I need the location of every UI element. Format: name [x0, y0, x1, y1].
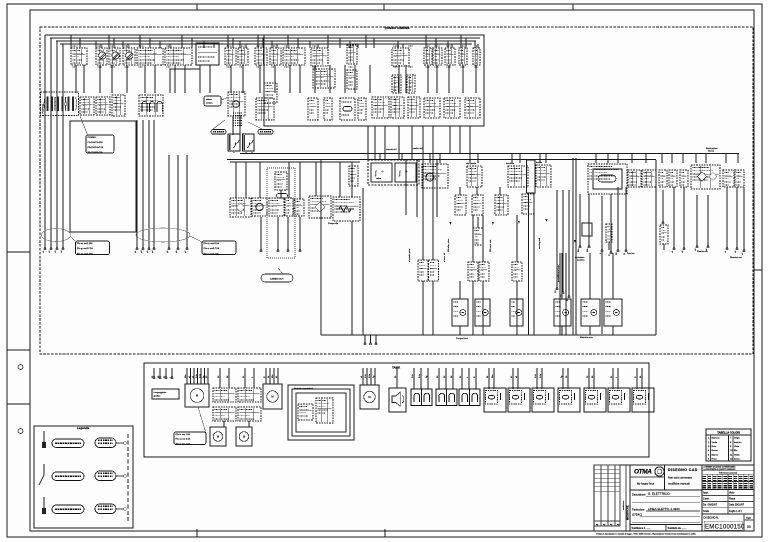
svg-text:Giallo: Giallo [734, 454, 740, 456]
svg-text:avviam.: avviam. [206, 102, 213, 104]
branch wire with terminal 2 [561, 190, 564, 297]
svg-text:chiave: chiave [206, 99, 213, 101]
bus drop wire 24 [276, 44, 278, 48]
legend pill left 1 [52, 439, 84, 447]
harness wire M4 [152, 120, 155, 253]
tank row pin 7 [461, 368, 463, 389]
long drop 2 [432, 281, 434, 335]
bus tap wire 17 [671, 153, 673, 163]
interconnect wire r1-r2 13 [242, 65, 244, 93]
tank sensor unit S12 [532, 388, 554, 412]
svg-text:1.5n: 1.5n [535, 374, 537, 378]
interconnect wire r1-r2 8 [174, 65, 176, 93]
flat connector CN2 [258, 130, 273, 135]
bus drop wire 12 [169, 44, 171, 48]
relay K2 [392, 48, 409, 66]
legend antenna symbol 1 [42, 431, 46, 448]
switch bank S2 [139, 95, 163, 116]
harness wire M6 [176, 155, 179, 253]
connector block PLANCIA [41, 92, 79, 116]
tank pin wire L2 [159, 368, 161, 379]
svg-text:Faro lav.: Faro lav. [627, 253, 635, 255]
bus drop wire 11 [159, 41, 161, 48]
bus drop wire 18 [232, 38, 234, 48]
interconnect wire r1-r2 23 [398, 65, 400, 93]
mid row2 feed 15 [499, 187, 501, 195]
tank row pin 9 [475, 368, 477, 389]
svg-text:56b: 56b [587, 248, 589, 252]
punch hole 2 [18, 429, 23, 434]
tank m1 pin 7 [207, 368, 209, 384]
svg-text:FUSIBILI:: FUSIBILI: [88, 137, 97, 139]
row1 jog wire [170, 65, 200, 93]
bus drop wire 43 [474, 41, 476, 48]
svg-text:Filo gr sez2-7.5A: Filo gr sez2-7.5A [77, 247, 93, 250]
connector group ellipse 2 [136, 228, 190, 242]
svg-text:Filo nr sez6-10A: Filo nr sez6-10A [204, 252, 220, 255]
tank m2 pin 3 [273, 368, 275, 384]
bus drop wire 16 [213, 44, 215, 48]
supply bus line 1 [45, 34, 484, 36]
inline module on avvisatore wire [582, 223, 592, 236]
branch wire with terminal 11 [672, 187, 675, 253]
bus tap wire 12 [607, 153, 609, 163]
svg-text:3: 3 [708, 446, 710, 448]
motor tail wire 3 [516, 326, 518, 335]
svg-text:Sostituito da ........: Sostituito da ........ [668, 527, 687, 530]
bus tap wire 15 [645, 153, 647, 163]
svg-text:1g: 1g [373, 376, 375, 378]
lamp module dotted [691, 165, 720, 189]
svg-text:Pompa freni: Pompa freni [456, 337, 468, 340]
interconnect wire r1-r2 20 [344, 65, 346, 93]
bus drop wire 37 [425, 35, 427, 48]
interconnect wire r1-r2 14 [259, 65, 261, 93]
tank row pin 18 [588, 368, 590, 389]
svg-text:Filo az sez1-10A: Filo az sez1-10A [77, 242, 93, 245]
motor feed wire 1 [459, 281, 461, 299]
bus drop wire 2 [79, 38, 81, 48]
harness wire L2 [49, 38, 52, 253]
tank valve group V2 [436, 389, 457, 406]
harness wire L3 [55, 41, 58, 253]
tank sensor unit S16 [632, 388, 654, 412]
mid band extra bus segment [230, 161, 360, 163]
aux module A6 diamond [315, 202, 325, 212]
motor tail wire 5 [589, 326, 591, 335]
svg-text:2: 2 [708, 442, 710, 444]
svg-text:58: 58 [616, 252, 618, 255]
bus drop wire 39 [447, 41, 449, 48]
svg-text:QUADRO COMANDI: QUADRO COMANDI [385, 26, 410, 30]
fuse F7 [270, 48, 281, 65]
svg-text:15A serv. cab.: 15A serv. cab. [489, 239, 492, 252]
legend pill left 2 [52, 472, 84, 480]
svg-text:buzzer: buzzer [536, 162, 542, 164]
svg-text:ag: ag [603, 524, 605, 526]
aux module A2 [252, 198, 267, 216]
frame fold tick bottom 2 [384, 529, 386, 537]
modifiche strip [622, 465, 630, 531]
tank motor unit M13 [263, 384, 282, 409]
bus drop wire 34 [373, 38, 375, 48]
connector pair P1b [429, 260, 439, 281]
mid row2 feed 5 [288, 162, 290, 198]
tank row pin 20 [612, 368, 614, 389]
svg-text:Avvisatore: Avvisatore [575, 256, 585, 259]
svg-text:Data 29/10/07: Data 29/10/07 [729, 504, 745, 507]
connector group 2 callout [202, 241, 236, 255]
wire relays to bus [233, 152, 235, 153]
tank row pin 17 [567, 368, 569, 389]
svg-text:S. ELETTRICO: S. ELETTRICO [648, 492, 670, 496]
cluster to bus wire 2 [374, 126, 376, 160]
long wire down x363 [362, 188, 364, 335]
svg-text:c4: c4 [61, 250, 63, 253]
bus drop wire 29 [327, 35, 329, 48]
tolleranze grid [702, 471, 754, 489]
mid row2 feed 12 [436, 160, 438, 217]
bus tap wire 6 [477, 153, 479, 163]
svg-text:stop guada: stop guada [466, 162, 477, 165]
tank motor unit M10 [185, 384, 209, 407]
tank m2 pin 1 [265, 368, 267, 384]
svg-text:∫: ∫ [374, 170, 377, 177]
suspension valve V2 [316, 398, 333, 423]
legend antenna symbol 3 [42, 497, 46, 514]
svg-text:remote ctrl: remote ctrl [386, 148, 397, 151]
ignition switch contact circle [233, 101, 240, 108]
tank m3 pin 3 [370, 368, 372, 385]
bus drop wire 27 [309, 41, 311, 48]
fuse F13 [392, 75, 401, 93]
svg-text:R: R [609, 254, 611, 256]
branch wire with terminal 3 [567, 190, 570, 301]
svg-text:Descrizione: Descrizione [632, 493, 646, 497]
mid row2 feed 10 [405, 160, 407, 215]
leader ellipse2 to callout [190, 236, 204, 243]
frame fold tick left 1 [7, 251, 30, 253]
bus tap wire 4 [439, 153, 441, 163]
connector Y5 [680, 170, 688, 187]
drop to lower connector 1 [422, 126, 424, 260]
fuse F14 [407, 75, 415, 93]
wire horn feed [396, 368, 398, 388]
motor tail wire 6 [612, 326, 614, 335]
long drop 9 [575, 253, 577, 335]
fuse F5 [238, 48, 248, 65]
connector group 1 callout [76, 241, 110, 255]
pair lower connector [522, 194, 534, 214]
tank row pin 10 [488, 368, 490, 389]
long drop 3 [472, 281, 474, 335]
svg-text:x2: x2 [682, 250, 684, 253]
horn speaker H1 [389, 388, 406, 412]
inner connector W2 [347, 70, 357, 89]
lamp column dotted enclosure [267, 168, 295, 258]
disegno n cell [702, 514, 754, 531]
leader tank callout [198, 407, 206, 433]
title block frame [594, 465, 754, 531]
description rows [632, 492, 700, 523]
suspension module nested frame outer [288, 385, 354, 440]
cluster to bus wire 5 [411, 126, 413, 160]
svg-text:c3: c3 [55, 250, 57, 253]
bus drop wire 32 [357, 44, 359, 48]
connector Y2 [642, 170, 656, 187]
motor tail wire 4 [561, 326, 563, 335]
svg-text:MODIFICHE: MODIFICHE [626, 505, 630, 520]
interconnect wire r1-r2 3 [99, 65, 101, 93]
tank row pin 3 [427, 368, 429, 389]
tank m3 pin 2 [366, 368, 368, 385]
bus tap wire 5 [469, 153, 471, 163]
central equipment enclosure [264, 35, 484, 126]
svg-text:Filo az sez4-10A: Filo az sez4-10A [204, 242, 220, 245]
svg-text:Vietata la riproduzione a term: Vietata la riproduzione a termini di leg… [596, 533, 697, 536]
connector X3 [408, 97, 420, 118]
tank connector T3 [213, 407, 236, 421]
svg-text:8: 8 [730, 442, 732, 444]
frame fold tick left 2 [7, 349, 30, 351]
svg-text:∫: ∫ [398, 170, 401, 177]
tank connector T2 [238, 388, 261, 402]
svg-text:p7: p7 [185, 250, 187, 253]
supply bus line 4 [60, 43, 472, 45]
lamp group wire 3 [287, 217, 289, 252]
bus tap wire 13 [617, 153, 619, 163]
tank row pin 5 [445, 368, 447, 389]
inner connector W8 [358, 98, 366, 120]
motor tail wire 1 [459, 326, 461, 335]
battery charger module dashed enclosure [368, 160, 419, 185]
legend arrow 3 [116, 508, 126, 511]
svg-text:-·|·-: -·|·- [381, 171, 385, 173]
relay feed wire 1 [245, 152, 247, 153]
fuse block FB4 [283, 48, 305, 65]
svg-text:Impianto sospensioni: Impianto sospensioni [294, 387, 313, 390]
svg-text:30: 30 [555, 290, 557, 293]
bus drop wire 22 [262, 38, 264, 48]
sub panel frame bottom [321, 334, 656, 336]
tank m1 pin 5 [200, 368, 202, 384]
supply bus line 3 [56, 40, 476, 42]
wire below Z1 [663, 244, 665, 250]
tank row pin 16 [562, 368, 564, 389]
tank pin wire L4 [171, 368, 173, 379]
svg-text:Piastra est.: Piastra est. [697, 250, 708, 253]
interconnect wire r1-r2 16 [289, 65, 291, 93]
svg-text:7: 7 [730, 438, 732, 440]
bus tap box T30 [349, 166, 358, 186]
mid row2 feed 3 [259, 162, 261, 198]
fuse F12 [473, 48, 480, 65]
relay module FB3 [196, 43, 219, 65]
sub panel frame right edge [655, 160, 657, 335]
cluster to bus wire 8 [469, 126, 471, 154]
drop to lower connector 3 [472, 215, 474, 262]
mid row2 feed 9 [351, 162, 353, 197]
branch wire with terminal 14 [706, 195, 709, 251]
tank connector T1 [213, 388, 236, 402]
branch wire with terminal 6 [600, 196, 603, 254]
fuse F4 [225, 48, 236, 65]
interconnect wire r1-r2 25 [427, 65, 429, 93]
fuse F9 [433, 48, 442, 65]
fuse F2 [109, 48, 120, 65]
legend box [34, 426, 133, 528]
svg-text:c3: c3 [742, 252, 744, 255]
connector P3 [512, 262, 522, 281]
fuse module F20 [473, 228, 483, 245]
svg-text:Marrone: Marrone [712, 437, 721, 440]
svg-text:LINEA ELETTR. 2.4300: LINEA ELETTR. 2.4300 [648, 507, 680, 511]
harness wire M5 [167, 155, 170, 253]
svg-text:1.5n: 1.5n [365, 374, 367, 378]
svg-text:al quadro princ.: al quadro princ. [409, 248, 411, 262]
tank row pin 2 [420, 368, 422, 389]
fuse F10 [445, 48, 455, 65]
interconnect wire r1-r2 27 [448, 65, 450, 93]
module lights circle [426, 173, 434, 181]
tank row pin 22 [636, 368, 638, 389]
bus drop wire 4 [100, 44, 102, 48]
svg-text:1g: 1g [426, 376, 428, 378]
tank small motor M11 [210, 427, 226, 446]
leader to CN1 [213, 120, 225, 129]
connector Y7 [735, 170, 744, 187]
svg-text:ag: ag [596, 524, 598, 526]
tank connector T4 [238, 407, 261, 421]
svg-text:F5=15A F6=10A: F5=15A F6=10A [88, 151, 104, 154]
svg-text:My happy hour: My happy hour [637, 482, 654, 486]
mid row2 feed 13 [459, 187, 461, 195]
mid row2 feed 6 [299, 162, 301, 199]
tank sensor unit S10 [484, 388, 506, 412]
svg-text:Azzurro: Azzurro [734, 441, 742, 444]
sub panel frame left edge [320, 160, 322, 335]
legend pill right 3 [95, 504, 116, 514]
svg-text:4: 4 [708, 450, 710, 452]
cluster to bus wire 7 [459, 126, 461, 154]
long pair wire 2a [572, 158, 574, 335]
svg-text:Bianco: Bianco [712, 454, 719, 456]
svg-text:Foglio 1 di 1: Foglio 1 di 1 [729, 510, 743, 513]
svg-text:30A alim. princ.: 30A alim. princ. [447, 238, 450, 252]
connector pair P1a [418, 260, 428, 281]
mid row2 feed 1 [235, 162, 237, 198]
svg-text:Lampeggiante: Lampeggiante [154, 391, 168, 394]
bus drop wire 40 [451, 44, 453, 48]
connector X2 [391, 97, 404, 118]
legend dashed separator [127, 434, 129, 521]
svg-text:ag: ag [617, 524, 619, 526]
indicator lamp F3 symbol [126, 52, 133, 60]
svg-text:F1=10A F2=15A: F1=10A F2=15A [88, 141, 104, 144]
resistor module squiggle [336, 206, 354, 212]
ignition pin stack marks [233, 113, 242, 126]
interconnect wire r1-r2 10 [199, 65, 201, 93]
svg-text:Visto: Visto [729, 492, 735, 495]
tank sensor unit S14 [584, 388, 606, 412]
svg-text:Da GM/2007: Da GM/2007 [703, 504, 718, 507]
bus drop wire 33 [365, 35, 367, 48]
svg-text:Sigla: Sigla [746, 517, 752, 519]
switch S1 [112, 95, 125, 116]
svg-text:Appr.: Appr. [703, 492, 709, 495]
bus tap wire 3 [429, 153, 431, 163]
label box lampeggiante [152, 389, 179, 399]
tank pair feed 1 [219, 368, 221, 388]
frame fold tick left 3 [7, 403, 30, 405]
fuse F1 [96, 48, 107, 65]
bus drop wire 21 [257, 35, 259, 48]
branch wire with terminal 16 [735, 187, 738, 253]
cluster to bus wire 4 [398, 126, 400, 160]
harness wire L4 [61, 44, 64, 253]
connector pair P2a [468, 262, 478, 281]
svg-text:M: M [217, 435, 219, 439]
svg-text:Loader ctrl: Loader ctrl [412, 147, 423, 150]
svg-text:Filo vr sez5-7.5A: Filo vr sez5-7.5A [204, 247, 220, 250]
fuse F6 [255, 48, 267, 65]
tank row pin 8 [468, 368, 470, 389]
charger unit 1 [371, 163, 392, 182]
connector X1 [372, 97, 389, 118]
svg-text:p6: p6 [176, 250, 178, 253]
cluster to bus wire 3 [384, 126, 386, 160]
bus drop wire 23 [271, 41, 273, 48]
long drop 4 [482, 281, 484, 335]
tank pair feed 2 [228, 368, 230, 388]
wire switch to CN1 [232, 116, 234, 135]
branch wire with terminal 7 [609, 194, 612, 256]
frame fold tick top 1 [196, 4, 198, 10]
tank valve group V3 [459, 389, 480, 406]
interconnect wire r1-r2 21 [354, 65, 356, 93]
interconnect wire r1-r2 28 [462, 65, 464, 93]
svg-text:56a: 56a [578, 248, 580, 252]
tank row pin 23 [641, 368, 643, 389]
tank m1 pin 6 [204, 368, 206, 384]
svg-text:c2: c2 [735, 250, 737, 253]
connector X6 [465, 98, 480, 118]
svg-text:p4: p4 [152, 250, 154, 253]
relay K4 [96, 97, 110, 115]
svg-text:con.freg.batt: con.freg.batt [538, 237, 541, 249]
svg-text:acustico: acustico [577, 259, 585, 262]
alternator enclosure wire left [601, 252, 603, 334]
panel to tank wire 1 [364, 335, 366, 345]
tank m1 pin 1 [186, 368, 188, 384]
pump motor M1 [452, 299, 468, 326]
svg-text:(175/4C): (175/4C) [632, 513, 642, 517]
bus drop wire 6 [113, 38, 115, 48]
relay K7 [243, 134, 255, 151]
interconnect wire r1-r2 9 [184, 65, 186, 93]
long drop 6 [559, 253, 561, 335]
tank row pin 21 [617, 368, 619, 389]
svg-text:OTMA: OTMA [634, 469, 652, 476]
tank pin wire L1 [153, 368, 155, 379]
wire arrow mark 2 [518, 221, 520, 224]
bus drop wire 38 [435, 38, 437, 48]
tank callout note [174, 432, 206, 445]
tank m1 pin 3 [193, 368, 195, 384]
bus tap wire 11 [595, 153, 597, 163]
connector X5 [444, 98, 460, 118]
main harness bus lower [227, 159, 656, 161]
